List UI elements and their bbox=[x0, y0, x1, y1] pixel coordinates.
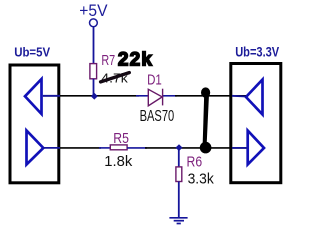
wire inside left box bottom bbox=[43, 147, 60, 149]
wire node to R6 bbox=[178, 148, 180, 167]
svg-text:1.8k: 1.8k bbox=[104, 153, 132, 170]
junction node top (diamond) bbox=[91, 93, 98, 100]
wire R7 to top node bbox=[93, 79, 95, 96]
svg-text:R6: R6 bbox=[187, 155, 203, 171]
IC left box bbox=[10, 65, 59, 183]
buffer left box top (receiver, points left) bbox=[25, 79, 42, 114]
wire +5V circle to R7 bbox=[93, 27, 95, 64]
svg-text:22k: 22k bbox=[118, 49, 153, 70]
svg-text:Ub=3.3V: Ub=3.3V bbox=[235, 45, 279, 60]
wire inside left box top bbox=[43, 95, 60, 97]
buffer right box bottom (receiver, points right) bbox=[248, 131, 264, 165]
wire inside right box bottom bbox=[232, 147, 248, 149]
junction node bottom (diamond) bbox=[176, 144, 183, 151]
diode D1 bbox=[148, 89, 162, 106]
+5V terminal circle bbox=[90, 19, 98, 27]
resistor R7 bbox=[90, 64, 97, 79]
strikethrough annotation over 4.7k bbox=[101, 73, 130, 82]
svg-text:D1: D1 bbox=[147, 72, 162, 88]
wire top net: diode cathode to right box bbox=[163, 95, 177, 97]
resistor R5 bbox=[110, 145, 127, 150]
svg-text:R5: R5 bbox=[113, 131, 129, 147]
svg-text:R7: R7 bbox=[101, 53, 115, 69]
svg-text:Ub=5V: Ub=5V bbox=[14, 45, 50, 60]
buffer right box top (driver, points left) bbox=[246, 80, 263, 115]
svg-text:+5V: +5V bbox=[79, 2, 107, 20]
hand-drawn marker connecting top and bottom nets bbox=[200, 87, 212, 153]
wire bottom net: left box to R5 bbox=[60, 147, 101, 149]
wire top net: left box to diode bbox=[43, 95, 139, 97]
resistor R6 bbox=[176, 167, 182, 182]
ground bbox=[169, 218, 187, 224]
svg-text:3.3k: 3.3k bbox=[188, 171, 215, 188]
IC right box bbox=[231, 64, 281, 183]
svg-text:BAS70: BAS70 bbox=[140, 108, 175, 125]
buffer left box bottom (driver, points right) bbox=[27, 131, 44, 165]
wire bottom net: R5 to right box bbox=[127, 147, 147, 149]
wire R6 to ground bbox=[178, 182, 180, 218]
wire inside right box top bbox=[232, 95, 246, 98]
